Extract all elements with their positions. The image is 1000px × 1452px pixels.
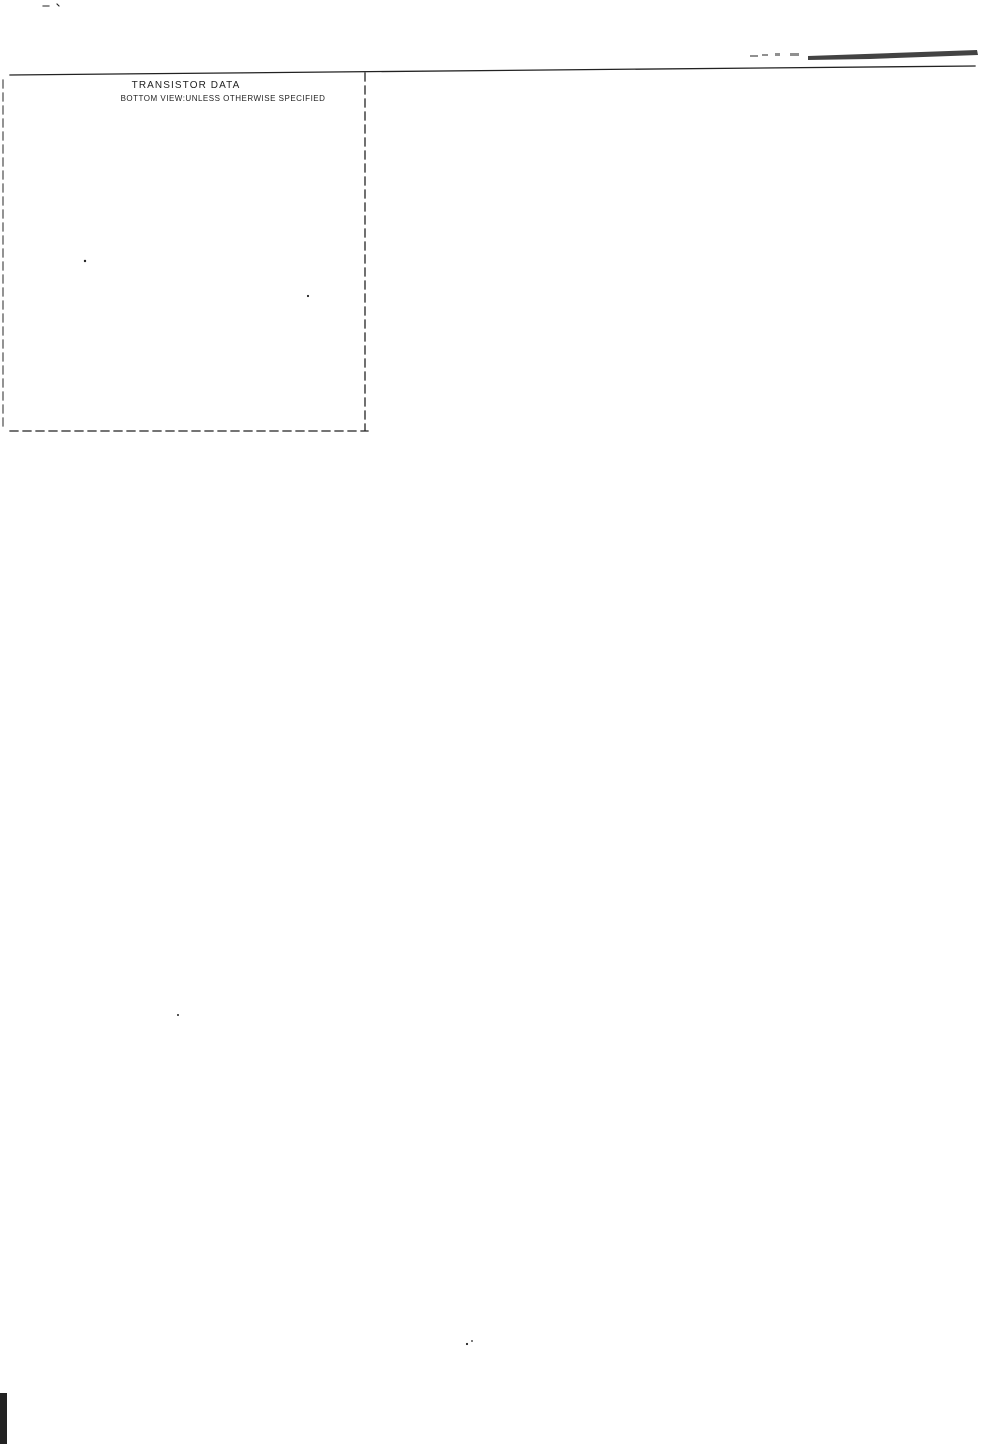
legend dashed left edge xyxy=(2,80,4,428)
svg-text:TRANSISTOR DATA: TRANSISTOR DATA xyxy=(132,80,241,91)
svg-text:BOTTOM VIEW:UNLESS OTHERWISE S: BOTTOM VIEW:UNLESS OTHERWISE SPECIFIED xyxy=(121,94,326,103)
bottom-left black bar xyxy=(0,1393,7,1444)
stray dots xyxy=(84,260,86,262)
stray mark top-left xyxy=(43,4,59,6)
legend dashed right edge xyxy=(364,73,366,430)
page top border line xyxy=(10,66,975,75)
top-right smudge strip xyxy=(808,50,978,60)
legend dashed bottom edge xyxy=(10,430,368,432)
